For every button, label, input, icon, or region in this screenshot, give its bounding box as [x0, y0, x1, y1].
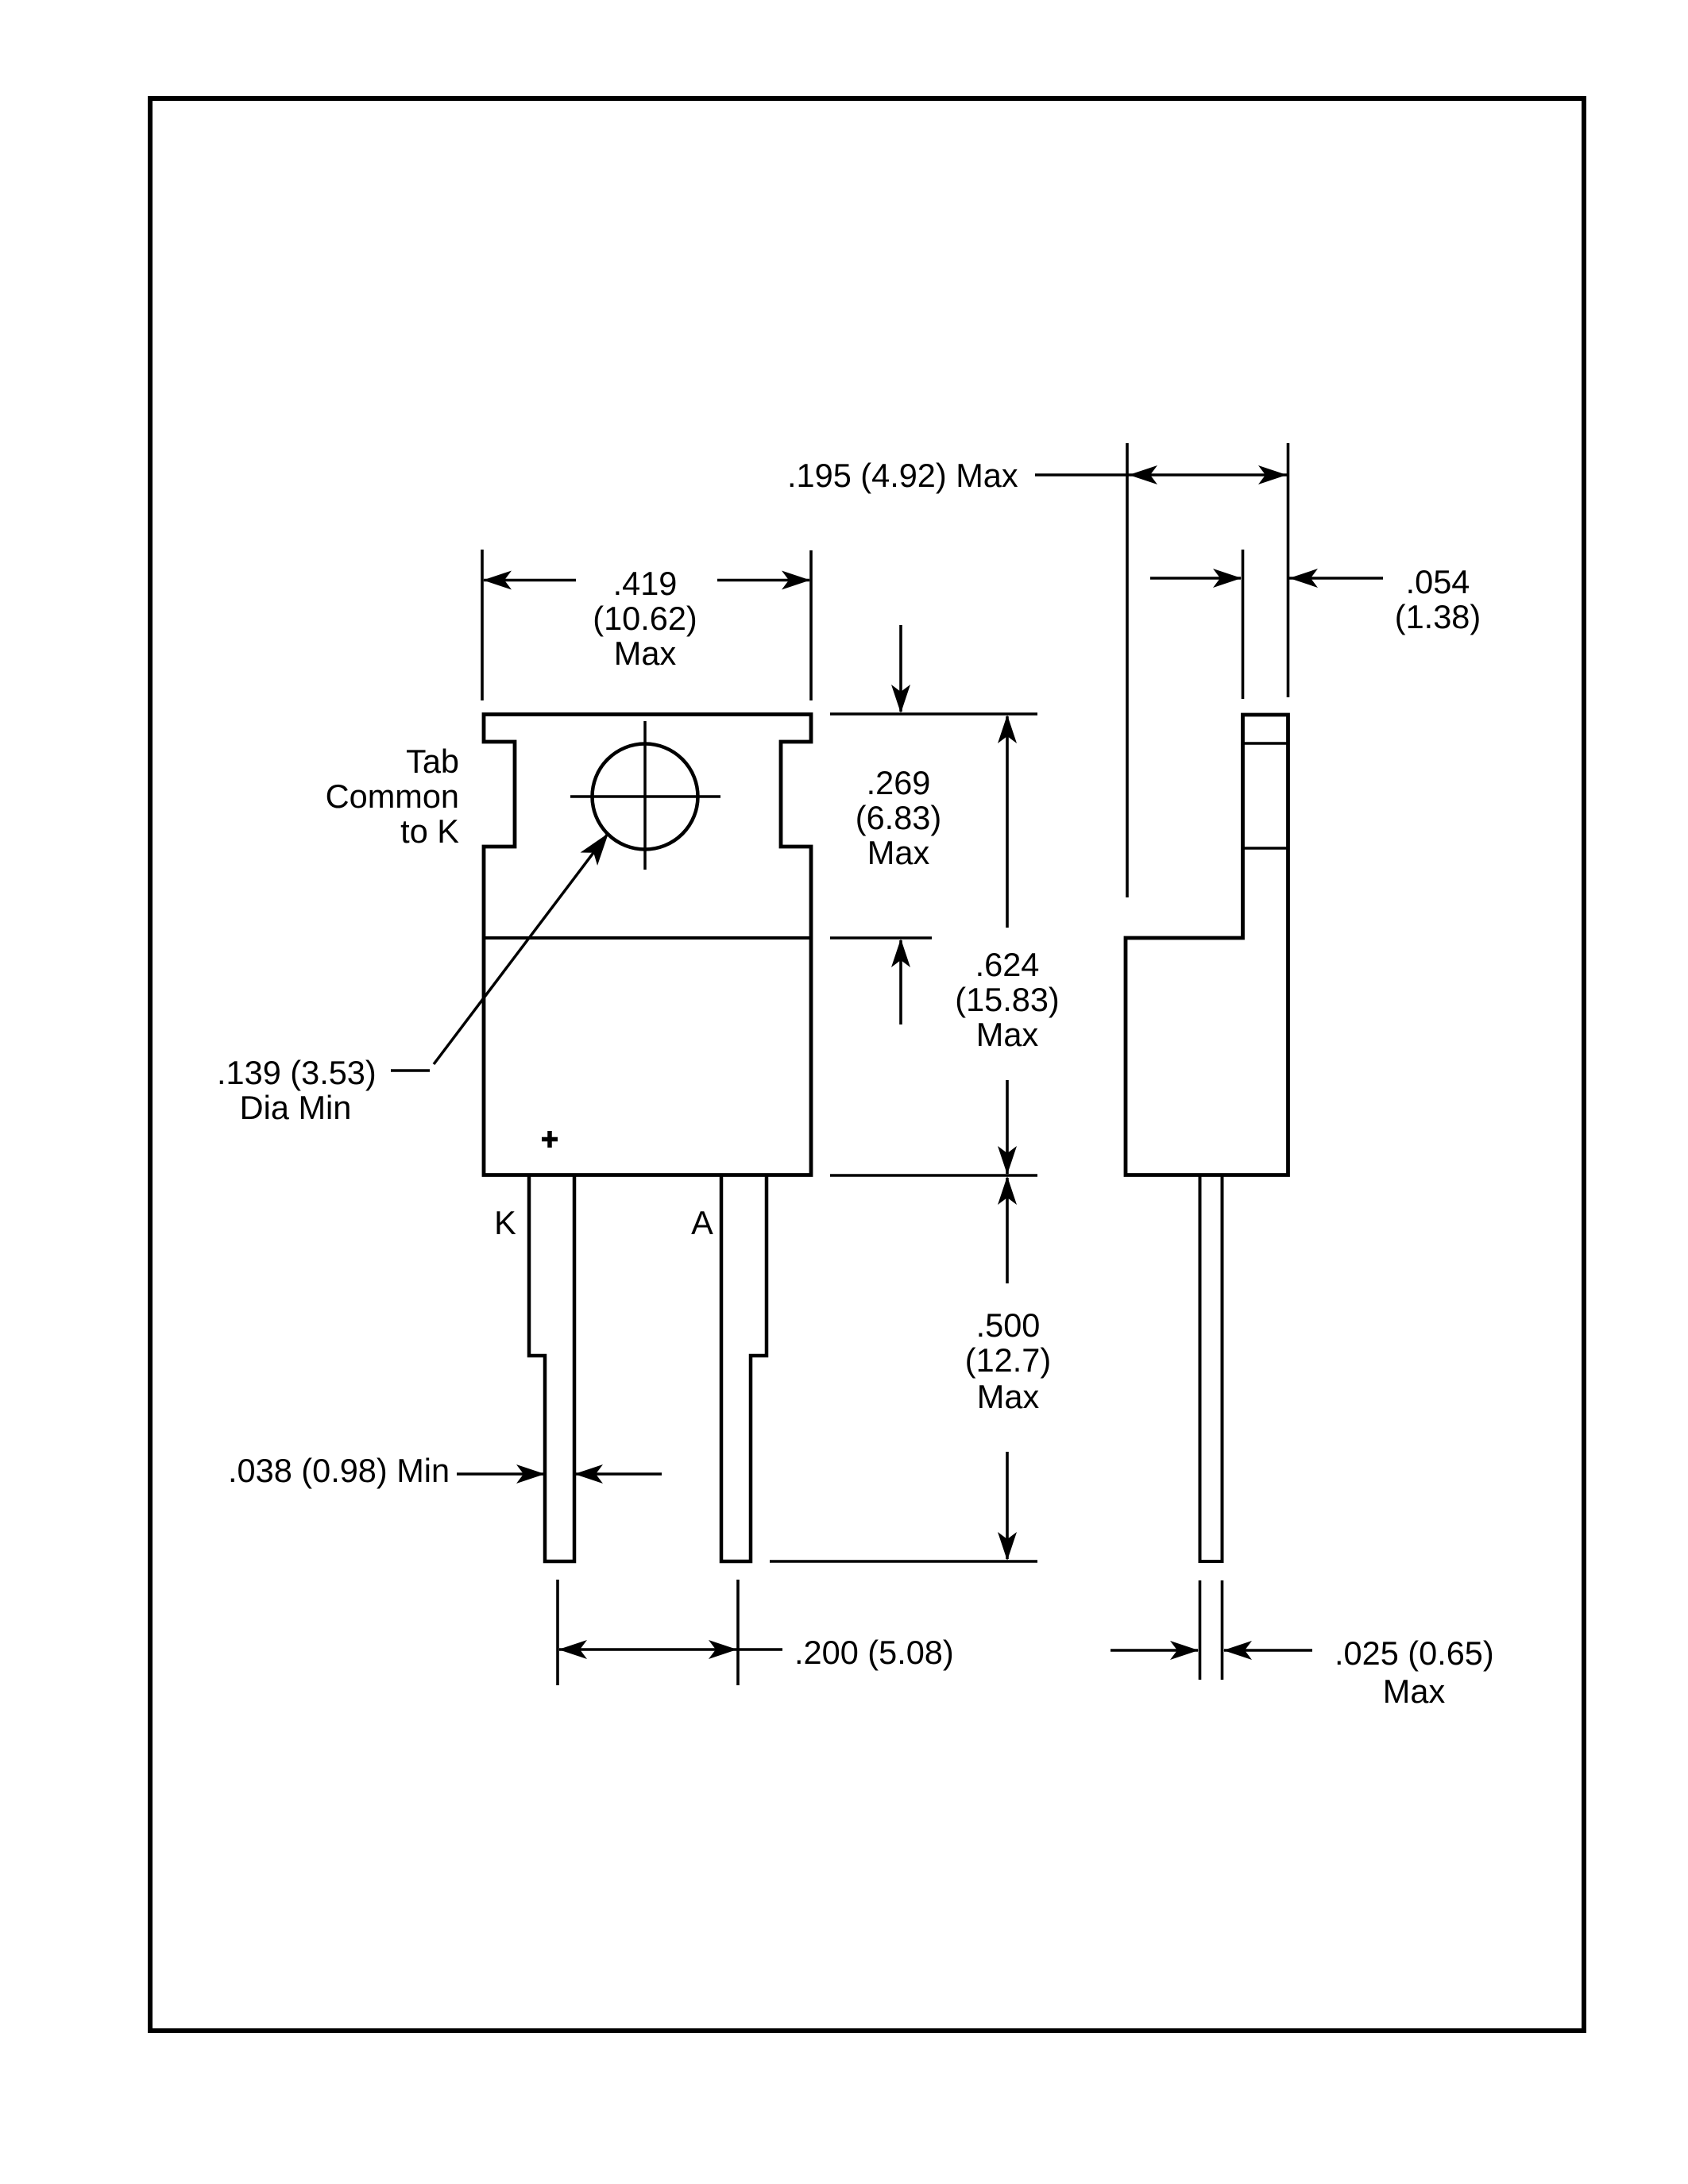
dim .624 top arrow shaft	[1006, 716, 1009, 928]
tab chamfer line lower	[1243, 847, 1288, 850]
svg-text:(6.83): (6.83)	[856, 799, 941, 836]
dim .419 left extension line	[481, 550, 484, 700]
arrowhead dim .054 right (left-pointing)	[1289, 569, 1318, 588]
arrowhead dim .200 left	[558, 1640, 587, 1659]
svg-text:.624: .624	[975, 946, 1040, 983]
dim .195 right extension line	[1287, 443, 1290, 697]
svg-text:A: A	[691, 1204, 713, 1241]
hole centerline vertical	[643, 721, 647, 870]
dim .200 line	[559, 1648, 782, 1651]
dim .054 left shaft	[1150, 577, 1241, 580]
dim .269 top reference line	[830, 712, 1037, 716]
arrowhead dim .200 right	[709, 1640, 737, 1659]
arrowhead dim .500 bottom (down)	[998, 1532, 1017, 1561]
svg-text:.419: .419	[613, 565, 678, 602]
svg-text:.195 (4.92) Max: .195 (4.92) Max	[787, 457, 1018, 494]
svg-text:Dia Min: Dia Min	[240, 1089, 352, 1126]
svg-text:.139 (3.53): .139 (3.53)	[217, 1054, 377, 1091]
leader line to mounting hole	[434, 834, 608, 1064]
arrowhead dim .195 left	[1129, 465, 1157, 484]
leader dash after .139 label	[391, 1069, 430, 1072]
svg-text:(10.62): (10.62)	[593, 600, 697, 637]
svg-text:.025 (0.65): .025 (0.65)	[1335, 1634, 1494, 1672]
svg-text:.200 (5.08): .200 (5.08)	[794, 1634, 954, 1671]
svg-text:Tab: Tab	[406, 743, 459, 780]
lead bottom reference line	[770, 1560, 1037, 1563]
svg-text:(15.83): (15.83)	[955, 981, 1060, 1018]
side view lead outline	[1200, 1176, 1223, 1561]
mounting hole	[593, 744, 698, 850]
dim .195 left extension line	[1126, 443, 1129, 897]
arrowhead dim .025 left (right-pointing)	[1170, 1641, 1199, 1660]
arrowhead dim .025 right (left-pointing)	[1223, 1641, 1252, 1660]
leader arrowhead at hole edge	[581, 827, 617, 866]
lead K outline	[529, 1176, 574, 1561]
dim .269 top arrow shaft	[899, 625, 902, 712]
arrowhead dim .038 left (right-pointing)	[516, 1464, 545, 1484]
svg-text:.269: .269	[867, 764, 931, 801]
dim .200 right extension line	[736, 1580, 740, 1685]
svg-text:.500: .500	[976, 1306, 1041, 1344]
dim .500 bottom arrow shaft	[1006, 1452, 1009, 1559]
arrowhead dim .269 bottom (up)	[891, 939, 910, 967]
lead A outline	[721, 1176, 767, 1561]
svg-text:Max: Max	[867, 834, 930, 871]
svg-text:Max: Max	[976, 1016, 1039, 1053]
dim .038 left shaft	[457, 1472, 543, 1476]
dim .025 right extension line (lead right edge)	[1221, 1580, 1224, 1680]
svg-text:Max: Max	[1383, 1673, 1446, 1710]
dim .624 bottom reference line (body bottom)	[830, 1174, 1037, 1177]
svg-text:Common: Common	[326, 778, 459, 815]
arrowhead dim .624 bottom (down)	[998, 1146, 1017, 1175]
dim .419 line right segment	[717, 579, 809, 582]
dim .624 bottom arrow shaft	[1006, 1080, 1009, 1174]
dim .025 right shaft	[1224, 1649, 1312, 1652]
dim .038 right shaft	[574, 1472, 662, 1476]
svg-text:(12.7): (12.7)	[965, 1341, 1051, 1379]
dim .054 extension line (tab left edge)	[1242, 550, 1245, 699]
arrowhead dim .269 top (down)	[891, 685, 910, 713]
polarity + mark	[542, 1131, 558, 1148]
dim .025 left shaft	[1111, 1649, 1198, 1652]
arrowhead dim .195 right	[1258, 465, 1287, 484]
arrowhead dim .624 top (up)	[998, 715, 1017, 743]
tab/body boundary line	[484, 936, 811, 940]
svg-text:to K: to K	[400, 812, 459, 850]
dim .269 bottom reference line	[830, 936, 932, 940]
svg-text:K: K	[494, 1204, 516, 1241]
svg-text:.038 (0.98) Min: .038 (0.98) Min	[228, 1452, 450, 1489]
dim .054 right shaft	[1289, 577, 1383, 580]
package side view outline	[1126, 715, 1288, 1175]
dim .200 left extension line	[556, 1580, 559, 1685]
svg-text:Max: Max	[614, 635, 677, 672]
dim .269 bottom arrow shaft	[899, 940, 902, 1024]
arrowhead dim .419 right	[782, 571, 810, 590]
svg-text:Max: Max	[977, 1378, 1040, 1415]
svg-text:.054: .054	[1406, 563, 1470, 600]
dim .025 left extension line (lead left edge)	[1199, 1580, 1202, 1680]
svg-text:(1.38): (1.38)	[1395, 598, 1481, 635]
arrowhead dim .500 top (up)	[998, 1176, 1017, 1205]
arrowhead dim .054 left (right-pointing)	[1213, 569, 1242, 588]
arrowhead dim .038 right (left-pointing)	[574, 1464, 603, 1484]
dim .195 line with text leader	[1035, 473, 1287, 477]
dim .419 right extension line	[809, 550, 813, 700]
hole centerline horizontal	[570, 795, 720, 798]
tab chamfer line upper	[1243, 742, 1288, 745]
dim .419 line left segment	[484, 579, 576, 582]
arrowhead dim .419 left	[483, 571, 512, 590]
dim .500 top arrow shaft	[1006, 1178, 1009, 1283]
package body outline (front view, TO-220 2-lead)	[484, 715, 811, 1175]
